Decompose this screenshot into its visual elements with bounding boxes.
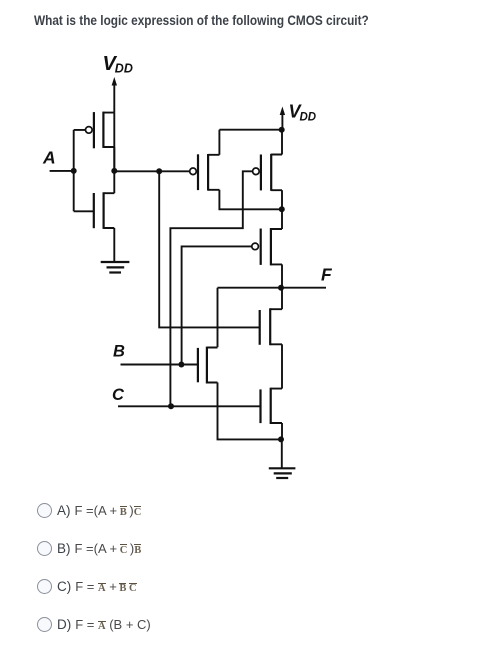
VDD label right [289,102,317,124]
wire: F node to left branch [218,288,282,348]
answer options [37,494,457,496]
svg-text:C: C [112,386,125,404]
VDD supply right (arrow) [280,107,285,130]
VDD label left [103,53,133,76]
wire: P1 source to VDD rail [218,130,220,155]
wire: F output [281,287,326,289]
wire: input B [121,364,198,366]
svg-text:A: A [42,148,56,168]
wire: gate feed vertical (inverter) [74,130,94,211]
pmos P2 (gate C) [253,154,282,191]
wire: input A [50,170,75,172]
ground (inverter) [101,262,130,273]
wire: P3 drain to F node [281,264,283,287]
wire: N1 gate from Abar [159,171,260,327]
junction: B net [178,362,184,368]
wire: N1 drain to F [281,288,283,310]
pmos P3 (gate B) [252,228,282,265]
svg-text:DD: DD [115,62,133,76]
pmos P1 (gate Abar) [190,154,220,191]
junction: input A gate node [71,168,77,174]
wire: VDD top rail [219,129,282,131]
junction: F node [278,285,284,291]
wire: inverter rail to ground [113,147,115,193]
junction: inverter output [111,168,117,174]
wire: P2 source to VDD node [281,130,283,155]
svg-text:F: F [321,265,333,285]
wire: N2 source down to bottom rail [218,383,282,440]
junction: Abar branch node [156,168,162,174]
node C label [112,386,125,404]
node B label [113,343,125,361]
svg-text:DD: DD [300,112,317,124]
wire: N1 source to N4 drain [281,344,283,388]
nmos N2 (gate B) [198,347,218,384]
wire: inverter output rail upper [113,113,115,171]
wire: N4 source to bottom rail node [281,423,283,439]
node A label [42,148,56,168]
node F label [321,265,333,285]
wire: input C [118,405,261,407]
ground (right) [269,468,296,478]
wire: P3 source to mid node [281,209,283,229]
junction: C net [168,403,174,409]
wire: inverter output to right section [114,170,190,172]
junction: VDD node [279,127,285,133]
wire: P1 drain to mid node [219,190,281,210]
pmos M1 (inverter pull-up, gate A) [86,112,115,149]
nmos N1 (gate Abar) [260,308,282,345]
nmos N4 (gate C) [261,388,283,424]
wire: P2 drain to mid node [281,190,283,209]
junction: mid node [279,206,285,212]
svg-text:B: B [113,343,125,361]
junction: bottom rail node [278,436,284,442]
wire: P2 gate jog to C net [170,171,252,406]
wire: P3 gate to B net [182,246,252,364]
wire: to ground right [281,439,283,468]
nmos M2 (inverter pull-down, gate A) [94,192,115,229]
VDD supply left (arrow) [112,77,117,113]
